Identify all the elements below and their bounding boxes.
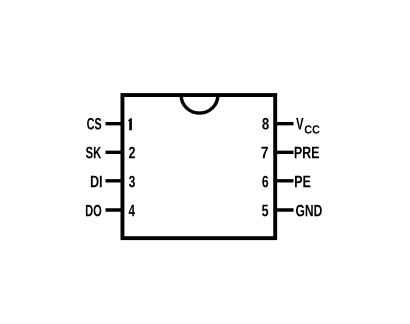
pin number 8 [262, 118, 269, 130]
pin number 6 [262, 176, 268, 188]
pin 3 lead wire (DI) [106, 179, 124, 182]
pin number 5 [262, 205, 268, 217]
signal label VCC subscript CC [305, 125, 320, 133]
pin 6 lead wire (PE) [275, 179, 294, 182]
pin number 7 [261, 147, 268, 159]
pin number 1 [128, 118, 132, 130]
pin number 2 [129, 147, 135, 159]
pin-1 orientation notch (top-center semicircle) [181, 96, 218, 114]
pin 1 lead wire (CS) [106, 122, 124, 125]
IC U1 DIP-8 package body outline [122, 95, 275, 238]
pin 5 lead wire (GND) [275, 208, 294, 211]
pin 4 lead wire (DO) [106, 208, 124, 211]
pin number 4 [129, 205, 135, 217]
signal label VCC (pin 8), V part [296, 118, 303, 129]
signal label PRE (pin 7) [295, 147, 319, 159]
signal label PE (pin 6) [295, 176, 310, 188]
pin number 3 [129, 176, 135, 188]
signal label GND (pin 5) [296, 205, 322, 217]
signal label SK (pin 2) [86, 147, 101, 159]
pin 7 lead wire (PRE) [275, 151, 294, 154]
pin 2 lead wire (SK) [106, 151, 124, 154]
pin 8 lead wire (VCC) [275, 122, 294, 125]
signal label DI (pin 3) [91, 176, 102, 188]
signal label CS (pin 1) [87, 118, 101, 130]
signal label DO (pin 4) [86, 205, 101, 217]
